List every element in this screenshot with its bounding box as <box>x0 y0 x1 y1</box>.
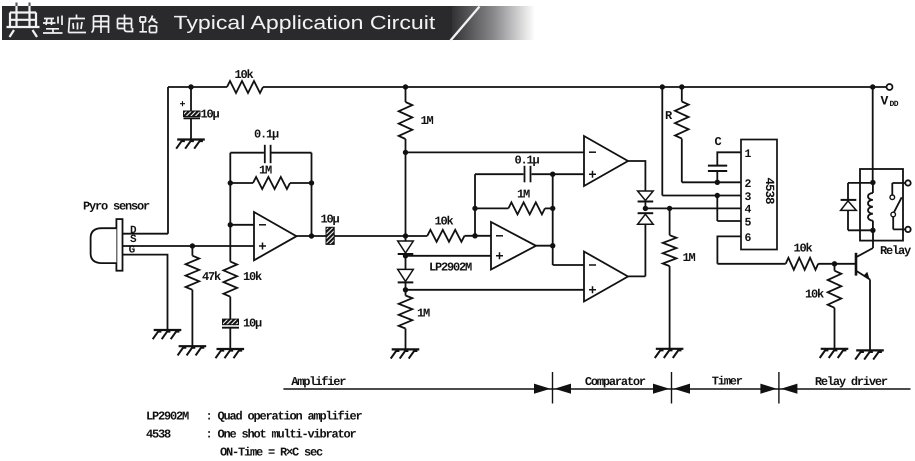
capacitor 10u supply bypass <box>190 87 192 111</box>
svg-text:+: + <box>180 100 186 111</box>
wire bias chain vertical <box>405 139 407 241</box>
svg-text:47k: 47k <box>202 270 221 284</box>
capacitor 10u coupling <box>326 227 334 244</box>
resistor 1M (U2 feedback) <box>475 207 508 209</box>
resistor R (timing) <box>679 84 684 89</box>
svg-text:V: V <box>881 94 889 109</box>
wire 10k to U2 - input <box>465 235 492 237</box>
wire U1 gain network vertical <box>229 153 231 262</box>
svg-text:LP2902M: LP2902M <box>429 261 472 275</box>
hanzi xing <box>43 16 63 34</box>
IC U5 4538 <box>741 140 777 250</box>
capacitor C (timing) <box>717 152 741 165</box>
svg-text:Pyro sensor: Pyro sensor <box>83 200 150 214</box>
wire to op-amp U2 + input <box>406 255 492 257</box>
wire to comparator U3 + input <box>553 173 584 175</box>
wire left drop from rail to D pin <box>167 87 169 234</box>
svg-text:DD: DD <box>890 100 899 109</box>
wire R to 4538 pin 2 <box>682 139 741 183</box>
svg-text:Comparator: Comparator <box>585 375 646 389</box>
wire U1 inverting input <box>230 224 254 226</box>
svg-text:: One shot multi-vibrator: : One shot multi-vibrator <box>206 428 357 442</box>
wire U4 output <box>628 224 645 276</box>
svg-text:R: R <box>665 109 673 123</box>
svg-text:Relay driver: Relay driver <box>815 375 888 389</box>
wire VDD to 4538 pin 3 <box>660 84 665 89</box>
svg-text:10k: 10k <box>794 242 813 256</box>
svg-text:LP2902M: LP2902M <box>146 410 189 424</box>
resistor 1M (bias lower) <box>399 296 413 329</box>
wire U2 feedback right vertical <box>552 174 554 265</box>
hanzi yong <box>92 16 109 33</box>
svg-text:10k: 10k <box>243 270 262 284</box>
wire top supply rail right <box>263 86 887 88</box>
resistor 10k (U1 gain) <box>224 262 238 297</box>
wire U2 output <box>536 245 553 247</box>
wire coupling cap to bias node <box>334 235 427 237</box>
wire U1 output <box>297 235 327 237</box>
diode D1 (threshold) <box>398 241 414 253</box>
svg-text:0.1µ: 0.1µ <box>515 154 540 168</box>
ground (pyro G pin) <box>154 329 182 331</box>
wire node Y to 4538 pin 4 <box>645 207 741 209</box>
diode D4 (OR) <box>638 212 654 214</box>
resistor 1M (bias upper) <box>403 84 408 89</box>
wire D pin to rail <box>123 233 169 235</box>
op-amp U2 <box>491 222 536 270</box>
wire VDD drop to relay <box>870 84 875 89</box>
capacitor 0.1u (U1 feedback) <box>264 145 266 163</box>
hanzi ying <box>69 15 87 33</box>
svg-text:Timer: Timer <box>712 374 743 388</box>
wire U1 feedback right vertical <box>311 153 313 236</box>
relay terminal bottom <box>905 227 910 232</box>
hanzi dian2 <box>118 15 133 32</box>
wire U2 feedback left vertical <box>474 174 476 236</box>
wire to comparator U4 - input <box>553 264 584 266</box>
svg-text:ON-Time = R×C sec: ON-Time = R×C sec <box>220 446 323 460</box>
relay terminal top <box>905 180 910 185</box>
resistor 1M (one-shot input pulldown) <box>669 208 671 235</box>
svg-text:1M: 1M <box>421 114 434 128</box>
capacitor 0.1u (U2 feedback) <box>475 173 523 175</box>
wire top supply rail left <box>168 86 227 88</box>
wire U1 feedback top <box>230 152 264 154</box>
svg-text:10µ: 10µ <box>321 213 340 227</box>
svg-text:1M: 1M <box>417 307 430 321</box>
resistor 47k <box>190 243 195 248</box>
svg-text:10µ: 10µ <box>201 108 220 122</box>
resistor 10k (U2 input) <box>427 230 464 242</box>
comparator U3 <box>584 136 628 186</box>
diode D2 (threshold) <box>398 269 414 281</box>
svg-text:: Quad operation amplifier: : Quad operation amplifier <box>206 410 363 424</box>
wire S pin to op-amp U1 + input <box>123 245 255 247</box>
hanzi lu <box>140 16 158 33</box>
ground (emitter) <box>856 349 884 351</box>
header banner <box>2 6 452 40</box>
resistor 10k (supply rail) <box>227 81 263 93</box>
ground (U1 gain network) <box>217 348 245 350</box>
resistor 10k (base) <box>786 258 819 270</box>
svg-text:10k: 10k <box>805 288 824 302</box>
ground (bias chain) <box>392 348 420 350</box>
resistor 1M (U1 feedback) <box>230 182 253 184</box>
svg-text:Relay: Relay <box>880 244 911 258</box>
wire lower threshold to comparator U4 + input <box>406 289 585 291</box>
svg-text:0.1µ: 0.1µ <box>254 127 279 141</box>
svg-text:10µ: 10µ <box>243 317 262 331</box>
section divider tick <box>778 372 780 404</box>
wire G pin to ground <box>123 255 168 330</box>
banner slash <box>451 7 480 41</box>
wire 4538 pin3 to pin5 link <box>717 196 741 222</box>
relay coil <box>872 183 874 194</box>
ground (1M pulldown) <box>656 348 684 350</box>
op-amp U1 <box>254 212 297 260</box>
diode D5 flyback <box>848 183 873 199</box>
resistor 10k (base pulldown) <box>834 264 836 271</box>
hanzi dian <box>17 3 30 7</box>
node VDD terminal <box>887 84 893 90</box>
section dimension line <box>283 388 910 390</box>
wire 4538 pin 6 output <box>717 236 785 263</box>
svg-text:4538: 4538 <box>146 428 171 442</box>
relay switch <box>890 195 895 200</box>
svg-text:10k: 10k <box>435 215 454 229</box>
svg-text:1M: 1M <box>517 188 530 202</box>
svg-text:Amplifier: Amplifier <box>291 375 346 389</box>
section divider tick <box>552 372 554 404</box>
wire upper threshold to comparator U3 - input <box>406 151 585 153</box>
ground (supply bypass cap) <box>177 138 205 140</box>
capacitor 10u (U1 gain) <box>223 319 239 325</box>
svg-text:C: C <box>715 135 722 149</box>
ground (47k) <box>179 345 207 347</box>
wire U3 output <box>628 161 645 191</box>
svg-text:4538: 4538 <box>762 177 776 204</box>
ground (base pulldown) <box>821 348 849 350</box>
diode D3 (OR) <box>638 191 654 201</box>
relay K1 <box>860 169 903 241</box>
svg-text:10k: 10k <box>235 68 254 82</box>
svg-text:1M: 1M <box>259 164 272 178</box>
svg-text:Typical Application Circuit: Typical Application Circuit <box>174 13 437 34</box>
transistor Q1 <box>855 253 858 276</box>
svg-text:1M: 1M <box>683 251 696 265</box>
section divider tick <box>671 372 673 404</box>
comparator U4 <box>584 252 628 302</box>
